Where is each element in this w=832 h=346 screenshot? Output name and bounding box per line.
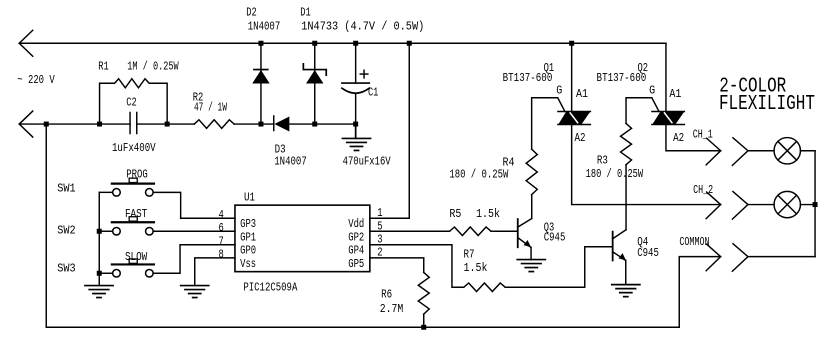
wire pin4 GP3 from SW1: [153, 192, 235, 218]
ground below C1: [342, 124, 370, 150]
connector COMMON socket arrow: [732, 244, 748, 272]
node R6 bottom rail: [421, 325, 426, 330]
svg-text:5: 5: [377, 219, 382, 233]
capacitor C2: [130, 112, 137, 133]
svg-text:G: G: [556, 83, 562, 97]
wire COMMON riser from bottom rail: [679, 257, 720, 328]
svg-text:1.5k: 1.5k: [476, 207, 500, 221]
capacitor C1: [342, 43, 369, 124]
svg-text:47 / 1W: 47 / 1W: [194, 100, 228, 114]
resistor R6: [418, 272, 429, 314]
wire Q1 gate: [532, 98, 565, 149]
wire D3 to C1 ground node: [289, 123, 355, 125]
resistor R5: [450, 227, 491, 236]
svg-text:CH_1: CH_1: [693, 127, 713, 141]
svg-text:G: G: [649, 83, 655, 97]
svg-text:BT137-600: BT137-600: [597, 71, 647, 85]
node R1/C2 right: [165, 122, 170, 127]
svg-text:D1: D1: [300, 5, 311, 19]
svg-text:C945: C945: [544, 230, 566, 244]
svg-text:GP3: GP3: [240, 217, 256, 231]
transistor Q3: [518, 219, 532, 260]
svg-text:GP0: GP0: [240, 244, 256, 258]
triac Q1: [558, 43, 590, 124]
wire pin2 GP5 to R6: [370, 258, 424, 273]
svg-text:R3: R3: [597, 153, 608, 167]
svg-text:U1: U1: [244, 190, 255, 204]
svg-text:7: 7: [219, 234, 224, 248]
lamp CH2: [774, 191, 800, 217]
node Q1 top: [569, 41, 574, 46]
wire pin7 GP0 from SW3: [153, 245, 235, 274]
node D1 bottom: [312, 122, 317, 127]
diode D3: [274, 116, 290, 132]
svg-text:470uFx16V: 470uFx16V: [343, 154, 392, 168]
wire lamp1 to common vertical: [800, 150, 815, 152]
node lamp2 common: [813, 202, 818, 207]
wire CH_1 to lamp1: [748, 150, 774, 152]
svg-text:R1: R1: [98, 59, 109, 73]
svg-text:C1: C1: [368, 85, 378, 99]
svg-text:R5: R5: [449, 207, 461, 221]
svg-text:GP2: GP2: [348, 230, 364, 244]
IC U1 box: [235, 205, 370, 272]
lamp CH1: [774, 138, 800, 164]
svg-text:C2: C2: [126, 95, 137, 109]
connector CH_1 socket arrow: [732, 138, 748, 166]
wire COMMON to lamps common line: [748, 256, 815, 258]
svg-text:~ 220 V: ~ 220 V: [17, 73, 55, 87]
node R1/C2 left: [97, 122, 102, 127]
svg-text:SW3: SW3: [57, 261, 75, 275]
svg-text:180 / 0.25W: 180 / 0.25W: [449, 167, 509, 181]
svg-text:1N4007: 1N4007: [274, 154, 307, 168]
connector CH_2 socket arrow: [732, 192, 748, 220]
svg-text:3: 3: [377, 232, 382, 246]
wire lower rail left segment: [19, 123, 130, 125]
svg-text:A2: A2: [673, 131, 684, 145]
svg-text:Vdd: Vdd: [348, 217, 364, 231]
node D2 top: [258, 41, 263, 46]
triac Q2: [652, 43, 684, 124]
svg-text:R7: R7: [464, 247, 475, 261]
switch SW1 PROG: [99, 178, 154, 196]
resistor R1 (zigzag branch): [100, 79, 168, 124]
wire pin5 GP2 to R5: [370, 230, 450, 232]
connector CH_1 plug arrow: [706, 138, 721, 165]
node Vdd riser top: [407, 41, 412, 46]
svg-text:FAST: FAST: [125, 207, 147, 221]
connector CH_2 plug arrow: [706, 192, 721, 219]
wire Q2 A2 to CH_1 connector: [666, 124, 721, 150]
wire bottom rail: [46, 326, 679, 328]
svg-text:CH_2: CH_2: [693, 183, 713, 197]
wire R7 to Q4 base: [505, 247, 613, 288]
svg-text:COMMON: COMMON: [679, 235, 709, 249]
svg-text:1: 1: [377, 206, 382, 220]
svg-text:1N4733 (4.7V / 0.5W): 1N4733 (4.7V / 0.5W): [301, 19, 424, 33]
wire top rail: [19, 42, 666, 44]
svg-text:1.5k: 1.5k: [464, 261, 488, 275]
wire pin8 Vss to ground: [195, 258, 235, 286]
wire lamps common vertical: [814, 151, 816, 257]
wire Q2 gate: [626, 98, 659, 124]
svg-text:8: 8: [219, 247, 224, 261]
wire pin3 GP4 to R7: [370, 245, 464, 288]
node junction lower rail x46: [44, 122, 49, 127]
svg-text:SLOW: SLOW: [125, 250, 148, 264]
svg-text:GP1: GP1: [240, 230, 256, 244]
switch SW3 SLOW: [99, 259, 154, 277]
resistor R4: [526, 149, 537, 195]
svg-text:PROG: PROG: [126, 167, 148, 181]
node SW3 column: [97, 271, 102, 276]
svg-text:4: 4: [219, 208, 224, 222]
wire R4 to Q3 collector: [531, 195, 533, 219]
svg-text:C945: C945: [637, 246, 659, 260]
wire R2 to D3: [234, 123, 274, 125]
ground below switches: [85, 286, 113, 298]
connector COMMON plug arrow: [706, 244, 721, 271]
AC input arrow bottom: [19, 111, 33, 137]
ground below Q4: [612, 285, 640, 297]
wire left drop to bottom rail: [45, 124, 47, 327]
wire Vdd riser: [370, 43, 409, 218]
wire R5 to Q3 base: [491, 230, 518, 232]
svg-text:SW2: SW2: [57, 223, 75, 237]
svg-text:D2: D2: [246, 5, 257, 19]
wire pin6 GP1 from SW2: [153, 230, 235, 232]
svg-text:SW1: SW1: [57, 181, 75, 195]
svg-text:Vss: Vss: [240, 257, 256, 271]
svg-text:FLEXILIGHT: FLEXILIGHT: [719, 93, 815, 116]
svg-text:1N4007: 1N4007: [248, 19, 281, 33]
node SW2 column: [97, 229, 102, 234]
ground below Q3: [517, 260, 545, 272]
svg-text:6: 6: [219, 221, 224, 235]
AC input arrow top: [19, 30, 33, 56]
node D2 bottom: [258, 122, 263, 127]
wire lower rail C2 to R2: [137, 123, 195, 125]
svg-text:BT137-600: BT137-600: [503, 71, 553, 85]
diode D2: [252, 43, 269, 124]
svg-text:R6: R6: [381, 287, 392, 301]
wire R6 to bottom rail: [423, 314, 425, 327]
svg-text:1M / 0.25W: 1M / 0.25W: [127, 59, 179, 73]
resistor R7: [464, 283, 505, 292]
switch SW2 FAST: [99, 217, 154, 235]
node C1 bottom / ground: [353, 122, 358, 127]
resistor R2: [194, 120, 234, 129]
svg-text:GP5: GP5: [348, 257, 364, 271]
svg-text:2.7M: 2.7M: [380, 302, 404, 316]
svg-text:GP4: GP4: [348, 244, 364, 258]
zener diode D1: [303, 43, 326, 124]
ground below Vss: [181, 286, 209, 298]
svg-text:PIC12C509A: PIC12C509A: [243, 280, 298, 294]
resistor R3: [621, 123, 632, 164]
svg-text:2: 2: [377, 246, 382, 260]
wire Q1 A2 to CH_2 connector: [572, 124, 721, 204]
wire lamp2 to common vertical: [800, 204, 815, 206]
svg-text:A1: A1: [576, 87, 588, 101]
svg-text:1uFx400V: 1uFx400V: [112, 141, 156, 155]
svg-text:180 / 0.25W: 180 / 0.25W: [586, 167, 644, 181]
wire CH_2 to lamp2: [748, 204, 774, 206]
node C1 top: [353, 41, 358, 46]
transistor Q4: [613, 230, 626, 285]
node D1 top: [312, 41, 317, 46]
wire R3 to Q4 collector: [625, 165, 627, 230]
svg-text:A1: A1: [669, 87, 681, 101]
wire switches common column: [98, 192, 100, 285]
svg-text:A2: A2: [574, 131, 585, 145]
